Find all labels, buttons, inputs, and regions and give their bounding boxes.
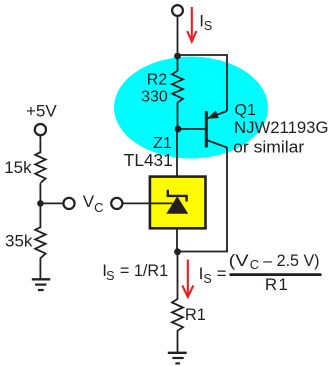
wire collector down bbox=[178, 148, 228, 252]
svg-text:IS: IS bbox=[102, 261, 114, 283]
svg-text:35k: 35k bbox=[5, 232, 33, 251]
wire base node to TL431 and through to bottom junction bbox=[176, 129, 178, 252]
TL431 zener symbol bbox=[166, 190, 188, 214]
svg-text:+5V: +5V bbox=[26, 102, 57, 121]
svg-text:– 2.5 V): – 2.5 V) bbox=[263, 251, 319, 270]
svg-text:VC: VC bbox=[83, 192, 104, 215]
wire +5V to divider bbox=[39, 135, 41, 153]
terminal circle Vc left bbox=[63, 198, 74, 209]
wire Vc reference into TL431 bbox=[122, 202, 172, 204]
svg-text:= 1/R1: = 1/R1 bbox=[120, 261, 168, 280]
red arrow Is bottom bbox=[182, 260, 193, 298]
wire base bbox=[178, 128, 206, 130]
resistor 15k bbox=[35, 152, 45, 183]
ground left bbox=[32, 279, 50, 290]
svg-text:NJW21193G: NJW21193G bbox=[234, 118, 329, 137]
svg-text:R1: R1 bbox=[185, 306, 206, 324]
svg-text:C: C bbox=[250, 257, 259, 272]
highlight ellipse bbox=[114, 57, 268, 159]
node junction top bbox=[174, 53, 181, 60]
svg-text:or similar: or similar bbox=[233, 138, 304, 157]
svg-text:IS: IS bbox=[199, 264, 212, 286]
formula fraction bar bbox=[230, 273, 322, 276]
terminal circle +5V bbox=[35, 124, 46, 135]
svg-text:=: = bbox=[217, 264, 227, 283]
terminal circle top bbox=[172, 5, 183, 16]
svg-text:IS: IS bbox=[199, 12, 212, 33]
wire top rail to emitter bbox=[178, 55, 228, 111]
svg-text:330: 330 bbox=[141, 88, 168, 105]
terminal circle Vc right bbox=[111, 198, 122, 209]
ground bottom bbox=[168, 353, 187, 364]
node junction base bbox=[175, 126, 182, 133]
svg-text:TL431: TL431 bbox=[124, 150, 173, 170]
wire 35k to ground bbox=[39, 258, 41, 278]
resistor R1 bbox=[172, 252, 183, 352]
node junction Vc divider bbox=[37, 200, 44, 207]
TL431 U1 box bbox=[150, 177, 206, 229]
svg-text:Q1: Q1 bbox=[235, 102, 256, 119]
svg-text:R1: R1 bbox=[265, 275, 289, 294]
resistor R2 bbox=[172, 56, 183, 129]
wire to Vc terminal bbox=[40, 202, 63, 204]
transistor Q1 bbox=[206, 111, 227, 148]
node junction bottom bbox=[174, 248, 181, 255]
wire top terminal to junction bbox=[177, 16, 179, 56]
wire divider mid bbox=[39, 183, 41, 228]
svg-text:R2: R2 bbox=[147, 71, 168, 88]
red arrow Is top bbox=[187, 7, 196, 42]
svg-text:(V: (V bbox=[229, 251, 250, 270]
svg-text:15k: 15k bbox=[4, 158, 32, 177]
resistor 35k bbox=[35, 227, 45, 258]
